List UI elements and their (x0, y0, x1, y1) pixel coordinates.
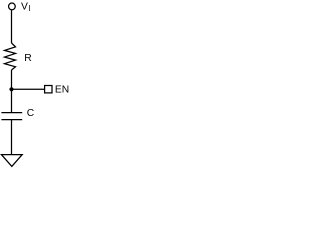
ground (1, 155, 22, 167)
node VI terminal (9, 3, 16, 10)
capacitor C top plate (1, 112, 22, 114)
svg-text:EN: EN (55, 84, 69, 95)
wire capacitor to ground (11, 120, 13, 155)
junction dot (9, 87, 13, 91)
capacitor C bottom plate (1, 119, 22, 121)
svg-text:C: C (27, 108, 35, 119)
resistor R (5, 43, 16, 70)
svg-text:I: I (28, 4, 30, 13)
wire resistor to capacitor (11, 70, 13, 113)
wire junction to EN pin (12, 88, 45, 90)
wire VI to resistor (11, 10, 13, 43)
svg-text:V: V (21, 2, 28, 13)
EN pin terminal square (45, 86, 52, 93)
svg-text:R: R (24, 53, 31, 64)
